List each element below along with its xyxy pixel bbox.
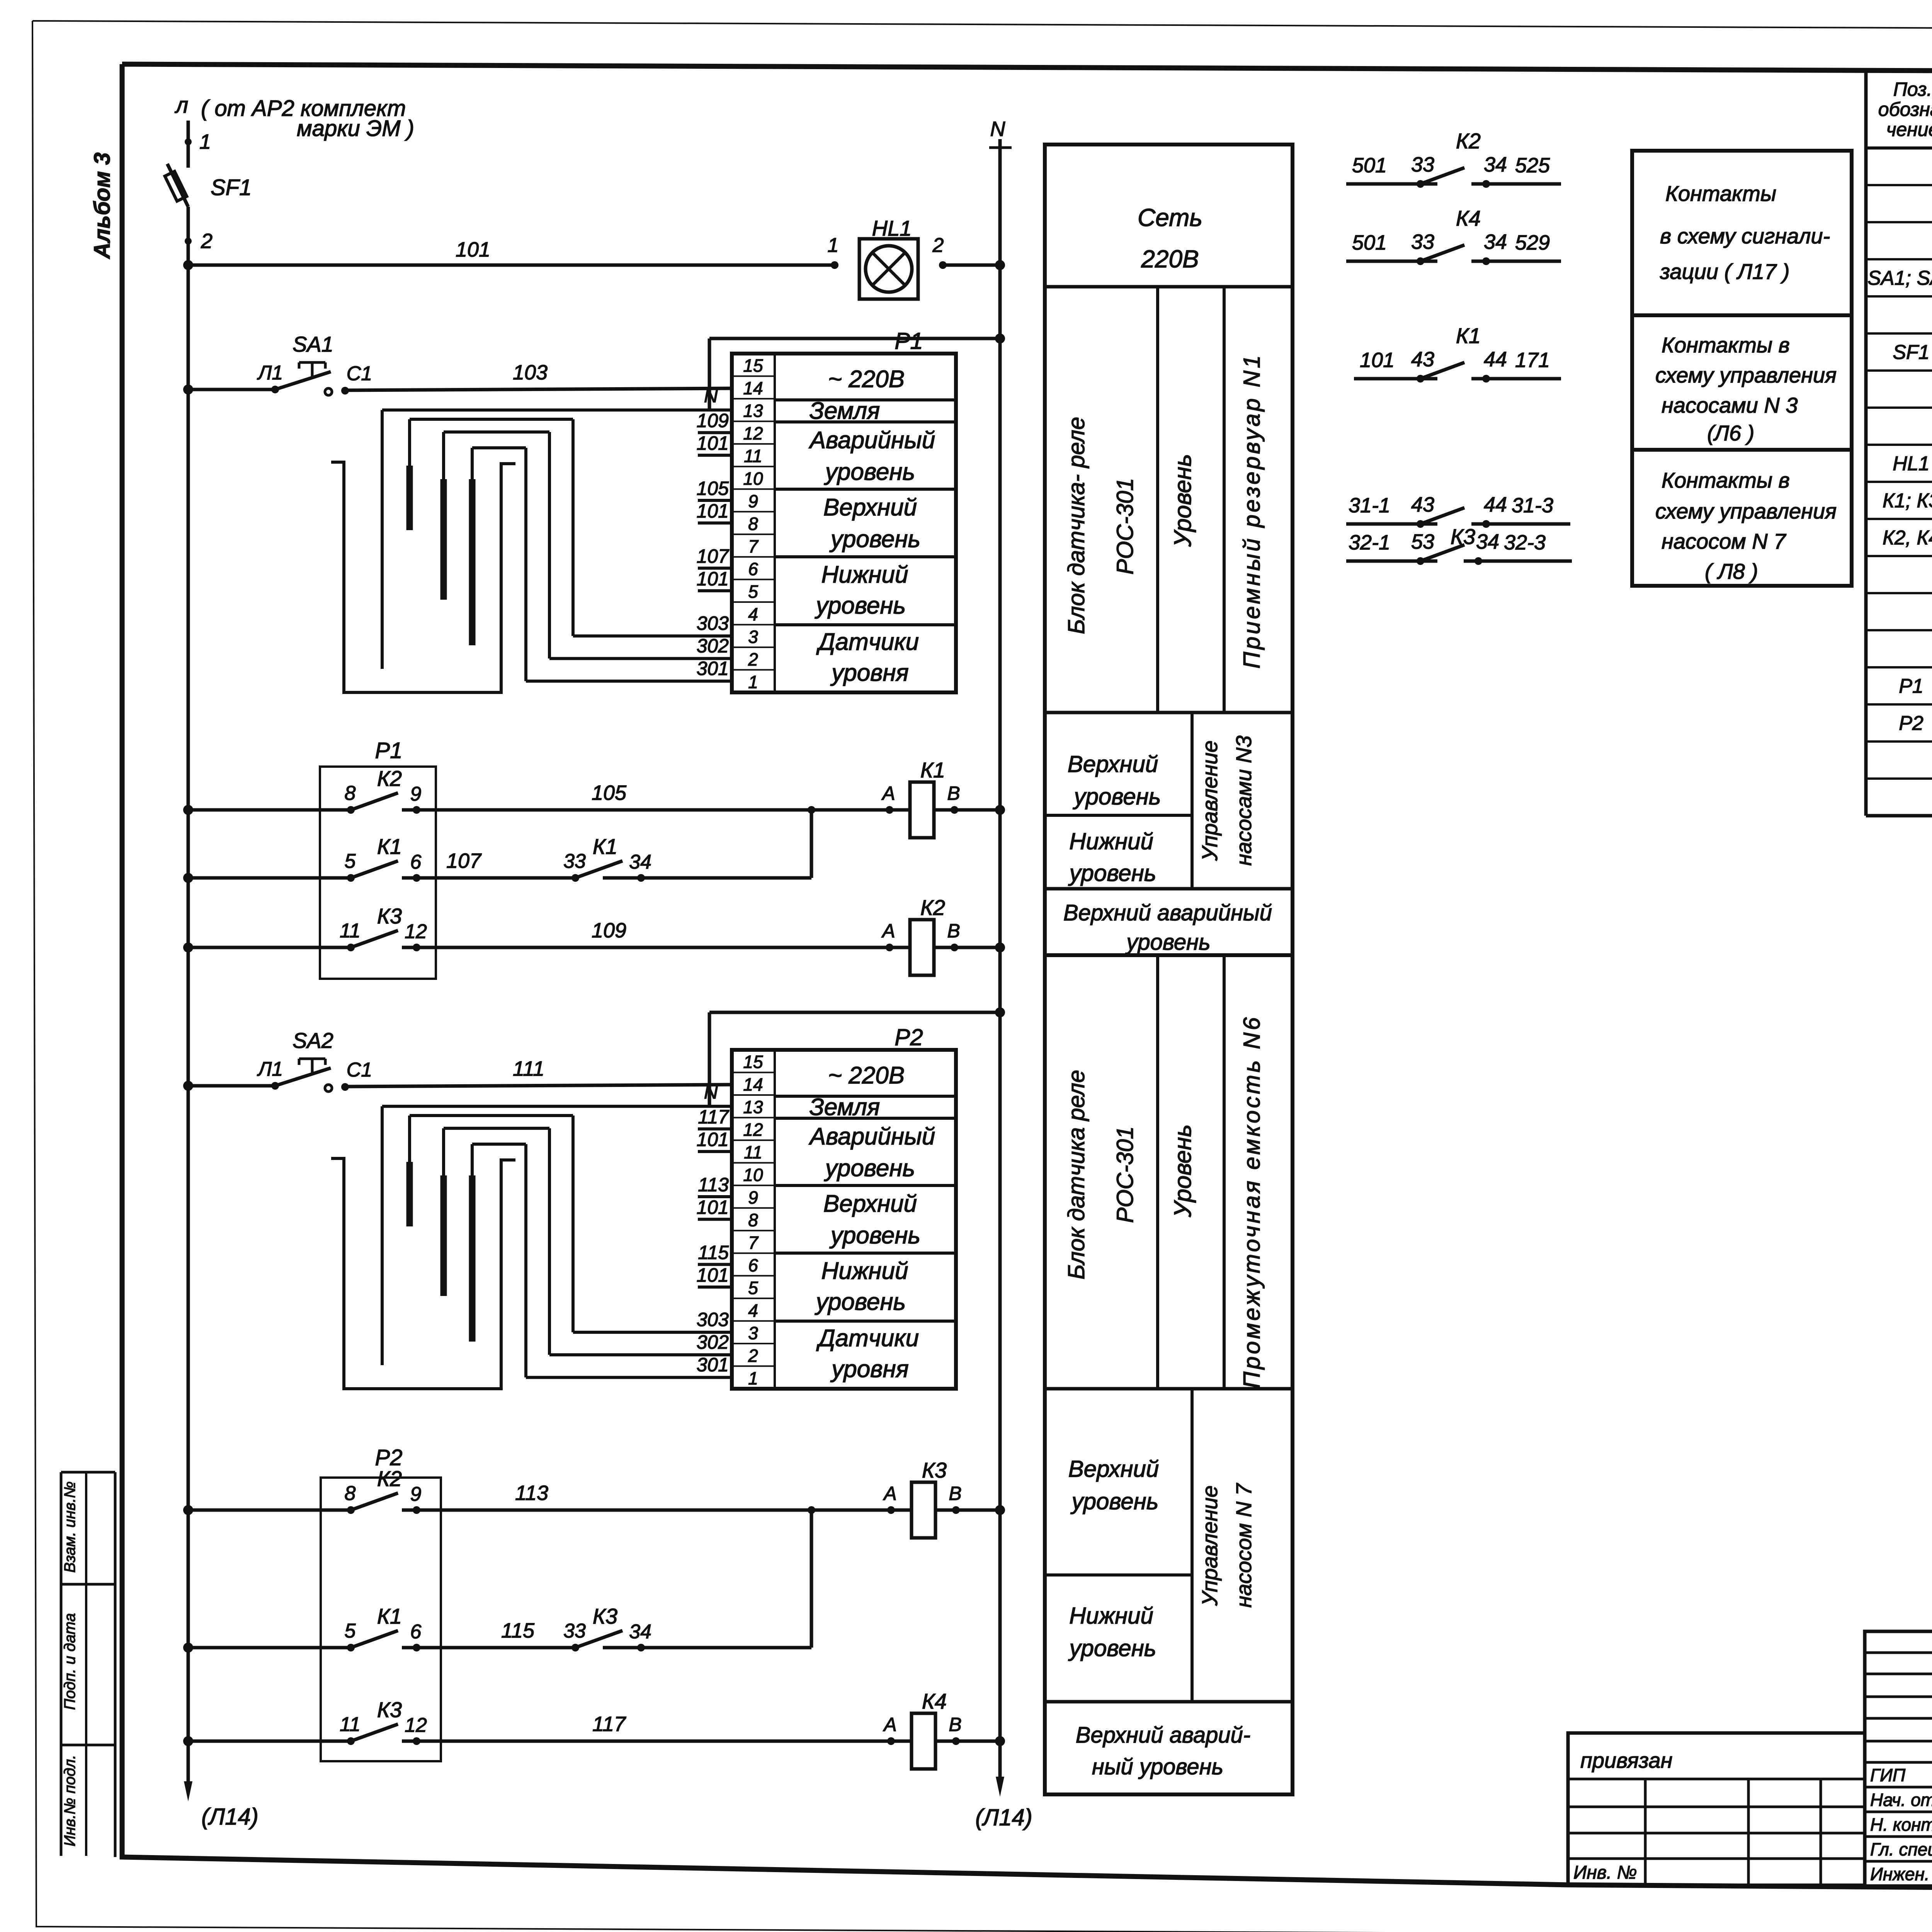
- svg-text:насосом N 7: насосом N 7: [1662, 529, 1786, 553]
- svg-text:Н. контр.: Н. контр.: [1870, 1815, 1932, 1835]
- svg-text:уровень: уровень: [815, 592, 906, 619]
- svg-text:Земля: Земля: [810, 1094, 880, 1121]
- svg-text:220В: 220В: [1141, 245, 1199, 273]
- svg-text:Гл. спец.: Гл. спец.: [1870, 1839, 1932, 1859]
- svg-text:117: 117: [592, 1713, 626, 1736]
- svg-text:Альбом 3: Альбом 3: [90, 152, 115, 259]
- svg-text:В: В: [949, 1483, 961, 1504]
- svg-text:А: А: [883, 1483, 896, 1504]
- svg-text:301: 301: [697, 658, 729, 679]
- svg-text:Инв. №: Инв. №: [1573, 1862, 1637, 1883]
- svg-text:303: 303: [697, 612, 729, 634]
- svg-text:уровень: уровень: [1068, 1635, 1156, 1661]
- svg-text:( Л8 ): ( Л8 ): [1705, 559, 1758, 583]
- svg-text:10: 10: [743, 1165, 763, 1185]
- svg-text:Земля: Земля: [810, 398, 880, 424]
- svg-text:113: 113: [698, 1174, 729, 1196]
- svg-text:А: А: [881, 782, 895, 804]
- svg-text:HL1: HL1: [1893, 452, 1929, 475]
- svg-text:К2: К2: [920, 895, 945, 920]
- svg-text:33: 33: [1411, 153, 1434, 176]
- svg-text:ный уровень: ный уровень: [1092, 1754, 1223, 1779]
- svg-text:Блок датчика реле: Блок датчика реле: [1063, 1070, 1089, 1280]
- svg-text:~ 220В: ~ 220В: [828, 366, 905, 393]
- svg-text:К3: К3: [1451, 524, 1475, 549]
- svg-text:105: 105: [592, 781, 627, 804]
- svg-text:9: 9: [410, 783, 422, 805]
- svg-text:К2, К4: К2, К4: [1883, 527, 1932, 549]
- svg-text:РОС-301: РОС-301: [1112, 1126, 1138, 1223]
- svg-text:2: 2: [748, 649, 758, 669]
- svg-text:6: 6: [748, 1255, 758, 1275]
- svg-text:43: 43: [1411, 493, 1434, 516]
- svg-text:уровень: уровень: [824, 1155, 915, 1182]
- svg-text:Нач. отд.: Нач. отд.: [1870, 1790, 1932, 1810]
- svg-text:SA1; SA2: SA1; SA2: [1867, 267, 1932, 289]
- svg-text:Инв.№ подл.: Инв.№ подл.: [61, 1755, 78, 1846]
- svg-text:8: 8: [345, 782, 356, 804]
- svg-text:32-1: 32-1: [1349, 531, 1390, 554]
- svg-text:107: 107: [697, 545, 730, 567]
- svg-text:К1; К3: К1; К3: [1883, 490, 1932, 512]
- svg-text:Верхний аварийный: Верхний аварийный: [1063, 900, 1272, 925]
- svg-text:уровня: уровня: [830, 1356, 909, 1383]
- svg-text:(Л14): (Л14): [975, 1804, 1032, 1830]
- svg-text:34: 34: [629, 851, 651, 873]
- svg-text:уровня: уровня: [830, 660, 909, 686]
- svg-text:12: 12: [405, 920, 427, 943]
- svg-text:С1: С1: [347, 362, 372, 385]
- svg-text:9: 9: [748, 1187, 758, 1207]
- svg-text:9: 9: [410, 1483, 422, 1505]
- svg-text:насосом N 7: насосом N 7: [1231, 1483, 1256, 1607]
- svg-text:чение: чение: [1886, 119, 1932, 140]
- svg-text:В: В: [947, 782, 960, 804]
- svg-text:5: 5: [345, 850, 356, 872]
- svg-text:5: 5: [748, 1278, 758, 1298]
- svg-text:Нижний: Нижний: [1069, 828, 1153, 854]
- svg-text:Промежуточная емкость N6: Промежуточная емкость N6: [1239, 1015, 1265, 1389]
- svg-text:~ 220В: ~ 220В: [828, 1062, 905, 1089]
- svg-text:Приемный резервуар N1: Приемный резервуар N1: [1239, 353, 1265, 669]
- svg-text:Сеть: Сеть: [1138, 204, 1202, 231]
- svg-text:4: 4: [748, 604, 758, 624]
- svg-text:529: 529: [1515, 231, 1550, 254]
- svg-text:ГИП: ГИП: [1870, 1765, 1906, 1785]
- svg-text:103: 103: [513, 361, 548, 384]
- svg-text:34: 34: [1484, 230, 1507, 253]
- svg-text:Контакты в: Контакты в: [1662, 468, 1790, 492]
- svg-text:11: 11: [340, 920, 361, 942]
- svg-text:33: 33: [563, 1620, 586, 1642]
- svg-text:уровень: уровень: [815, 1289, 906, 1315]
- svg-text:Р2: Р2: [895, 1024, 923, 1050]
- svg-text:32-3: 32-3: [1504, 531, 1546, 554]
- svg-text:Взам. инв.№: Взам. инв.№: [61, 1481, 78, 1573]
- svg-text:303: 303: [697, 1309, 729, 1330]
- svg-text:3: 3: [748, 627, 758, 647]
- svg-text:Верхний: Верхний: [823, 494, 917, 521]
- svg-text:34: 34: [1484, 153, 1507, 176]
- svg-text:К4: К4: [922, 1689, 947, 1713]
- svg-text:привязан: привязан: [1580, 1748, 1672, 1772]
- svg-text:31-3: 31-3: [1512, 494, 1553, 517]
- svg-text:115: 115: [698, 1242, 729, 1263]
- svg-text:33: 33: [1411, 230, 1434, 253]
- svg-text:К3: К3: [593, 1604, 617, 1628]
- svg-text:34: 34: [629, 1621, 651, 1643]
- svg-text:2: 2: [932, 234, 944, 257]
- svg-text:Нижний: Нижний: [821, 561, 908, 588]
- svg-text:2: 2: [748, 1345, 758, 1366]
- svg-text:101: 101: [456, 238, 490, 261]
- svg-text:107: 107: [446, 849, 482, 872]
- svg-text:в схему сигнали-: в схему сигнали-: [1660, 224, 1830, 248]
- svg-text:109: 109: [697, 410, 729, 432]
- svg-text:1: 1: [748, 1368, 758, 1388]
- svg-text:обозна-: обозна-: [1878, 99, 1932, 120]
- svg-text:марки ЭМ ): марки ЭМ ): [297, 116, 414, 141]
- svg-text:Контакты: Контакты: [1665, 181, 1776, 206]
- svg-text:5: 5: [345, 1620, 356, 1642]
- svg-text:Верхний аварий-: Верхний аварий-: [1076, 1723, 1250, 1748]
- svg-text:Контакты в: Контакты в: [1662, 333, 1790, 357]
- svg-text:А: А: [883, 1714, 896, 1735]
- svg-text:12: 12: [405, 1714, 427, 1736]
- svg-text:К3: К3: [922, 1458, 947, 1482]
- svg-text:Инжен.: Инжен.: [1870, 1864, 1930, 1884]
- svg-text:Нижний: Нижний: [821, 1258, 908, 1284]
- svg-text:Р1: Р1: [375, 738, 403, 763]
- svg-text:8: 8: [748, 1210, 758, 1230]
- svg-text:3: 3: [748, 1323, 758, 1343]
- svg-text:К1: К1: [377, 1604, 402, 1628]
- svg-text:К1: К1: [1456, 323, 1481, 348]
- svg-text:К4: К4: [1456, 206, 1481, 230]
- svg-text:HL1: HL1: [872, 216, 912, 240]
- svg-text:525: 525: [1515, 154, 1550, 177]
- svg-text:Верхний: Верхний: [1068, 1456, 1159, 1482]
- svg-text:501: 501: [1352, 154, 1387, 177]
- svg-text:РОС-301: РОС-301: [1112, 478, 1138, 575]
- svg-text:1: 1: [828, 234, 839, 257]
- svg-text:11: 11: [340, 1713, 361, 1736]
- svg-text:10: 10: [743, 469, 763, 489]
- svg-text:Верхний: Верхний: [823, 1190, 917, 1217]
- svg-text:Л1: Л1: [257, 1058, 283, 1080]
- svg-text:33: 33: [563, 850, 586, 872]
- svg-text:Датчики: Датчики: [816, 1325, 919, 1352]
- svg-text:44: 44: [1484, 348, 1507, 371]
- svg-text:N: N: [990, 117, 1006, 141]
- svg-text:Нижний: Нижний: [1069, 1603, 1153, 1629]
- svg-text:1: 1: [199, 130, 211, 153]
- svg-text:501: 501: [1352, 231, 1387, 254]
- svg-text:113: 113: [515, 1481, 548, 1505]
- svg-text:Блок датчика- реле: Блок датчика- реле: [1063, 417, 1089, 634]
- svg-text:5: 5: [748, 582, 758, 602]
- svg-text:Аварийный: Аварийный: [808, 1123, 935, 1150]
- svg-text:43: 43: [1411, 348, 1434, 371]
- svg-text:К1: К1: [593, 834, 617, 859]
- svg-text:уровень: уровень: [824, 459, 915, 485]
- svg-text:уровень: уровень: [1073, 784, 1161, 810]
- svg-text:схему управления: схему управления: [1655, 363, 1837, 387]
- svg-text:насосами N3: насосами N3: [1231, 736, 1256, 866]
- svg-text:109: 109: [592, 919, 626, 942]
- svg-text:15: 15: [743, 1052, 763, 1072]
- svg-text:11: 11: [744, 446, 762, 466]
- svg-text:(Л14): (Л14): [201, 1804, 259, 1830]
- svg-text:4: 4: [748, 1300, 758, 1320]
- svg-text:12: 12: [743, 423, 763, 444]
- svg-text:Аварийный: Аварийный: [808, 427, 935, 454]
- svg-text:К2: К2: [1456, 129, 1481, 153]
- svg-text:101: 101: [697, 1264, 729, 1286]
- svg-text:Р1: Р1: [895, 328, 923, 354]
- svg-text:Поз.: Поз.: [1893, 78, 1932, 100]
- svg-text:171: 171: [1515, 349, 1550, 372]
- svg-text:уровень: уровень: [829, 1222, 920, 1249]
- svg-text:34: 34: [1476, 530, 1499, 553]
- svg-text:К3: К3: [377, 904, 402, 928]
- svg-text:8: 8: [345, 1482, 356, 1505]
- svg-text:302: 302: [697, 635, 729, 656]
- svg-text:2: 2: [201, 230, 213, 253]
- svg-text:13: 13: [743, 401, 763, 421]
- svg-text:9: 9: [748, 491, 758, 511]
- svg-text:уровень: уровень: [1070, 1488, 1159, 1514]
- svg-text:105: 105: [697, 478, 729, 499]
- svg-text:301: 301: [697, 1354, 729, 1376]
- svg-text:31-1: 31-1: [1349, 494, 1390, 517]
- svg-text:111: 111: [513, 1057, 544, 1080]
- svg-text:уровень: уровень: [1068, 860, 1156, 886]
- svg-text:6: 6: [410, 1621, 422, 1643]
- svg-text:6: 6: [410, 851, 422, 873]
- svg-text:14: 14: [743, 378, 763, 398]
- svg-text:SA2: SA2: [293, 1028, 333, 1053]
- svg-text:К2: К2: [377, 1466, 402, 1491]
- svg-text:Управление: Управление: [1197, 1485, 1222, 1606]
- svg-text:уровень: уровень: [829, 526, 920, 553]
- svg-text:В: В: [949, 1714, 961, 1735]
- svg-text:7: 7: [748, 536, 759, 556]
- svg-text:насосами N 3: насосами N 3: [1662, 393, 1798, 417]
- svg-text:Управление: Управление: [1197, 740, 1222, 861]
- svg-text:SF1: SF1: [211, 175, 252, 200]
- svg-text:С1: С1: [347, 1059, 372, 1081]
- svg-text:8: 8: [748, 514, 758, 534]
- svg-text:зации ( Л17 ): зации ( Л17 ): [1660, 259, 1790, 284]
- svg-text:К2: К2: [377, 766, 402, 791]
- svg-text:Уровень: Уровень: [1170, 454, 1196, 547]
- svg-text:К1: К1: [377, 834, 402, 859]
- svg-text:15: 15: [743, 355, 763, 376]
- svg-text:1: 1: [748, 672, 758, 692]
- svg-text:схему управления: схему управления: [1655, 499, 1837, 523]
- svg-text:101: 101: [697, 568, 729, 590]
- svg-text:К3: К3: [377, 1697, 402, 1722]
- svg-text:53: 53: [1411, 530, 1434, 553]
- svg-text:6: 6: [748, 559, 758, 579]
- svg-text:14: 14: [743, 1075, 763, 1095]
- svg-text:Верхний: Верхний: [1068, 751, 1158, 777]
- svg-text:А: А: [881, 920, 895, 942]
- svg-text:101: 101: [697, 1197, 729, 1218]
- svg-text:Р1: Р1: [1899, 675, 1923, 697]
- svg-text:В: В: [947, 920, 960, 942]
- svg-text:115: 115: [501, 1619, 535, 1642]
- svg-text:117: 117: [698, 1106, 730, 1128]
- svg-text:101: 101: [697, 500, 729, 522]
- svg-text:11: 11: [744, 1142, 762, 1162]
- svg-text:SA1: SA1: [293, 332, 333, 356]
- svg-text:(Л6 ): (Л6 ): [1707, 421, 1754, 445]
- svg-text:уровень: уровень: [1125, 930, 1210, 955]
- svg-text:7: 7: [748, 1233, 759, 1253]
- svg-text:Л1: Л1: [257, 362, 283, 384]
- svg-text:302: 302: [697, 1331, 729, 1353]
- svg-text:12: 12: [743, 1120, 763, 1140]
- svg-text:К1: К1: [920, 758, 945, 782]
- svg-text:N: N: [704, 385, 718, 406]
- svg-text:Подп. и дата: Подп. и дата: [61, 1613, 78, 1710]
- svg-text:Уровень: Уровень: [1170, 1124, 1196, 1218]
- svg-text:Р2: Р2: [1899, 712, 1923, 735]
- svg-text:44: 44: [1484, 493, 1507, 516]
- svg-text:101: 101: [697, 1129, 729, 1150]
- svg-text:Датчики: Датчики: [816, 629, 919, 655]
- svg-text:N: N: [704, 1081, 718, 1103]
- svg-text:л: л: [175, 93, 189, 118]
- svg-text:101: 101: [697, 432, 729, 454]
- svg-text:13: 13: [743, 1097, 763, 1117]
- svg-text:SF1: SF1: [1893, 341, 1929, 364]
- svg-text:101: 101: [1360, 349, 1395, 372]
